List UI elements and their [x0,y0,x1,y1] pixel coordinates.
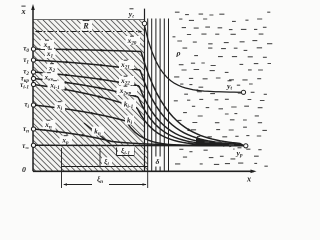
arrowhead on curve [56,130,60,133]
curve tau_2 steep part [139,86,244,146]
xi_n dimension line [64,184,92,186]
label delta [154,157,163,167]
R dimension line [36,31,141,33]
boundary layer vertical lines [147,19,149,172]
arrowhead on curve [65,74,69,77]
label y_p bottom right [235,149,247,158]
arrowhead on curve [66,48,70,51]
label x_i-1 [48,81,65,90]
arrowhead on curve [101,49,105,52]
label k_i-1 [122,100,137,109]
curve tau_4 steep part [137,108,244,146]
label x_21 [119,60,134,69]
label x_1 [45,49,56,58]
curve tau_0 gentle part [34,49,142,52]
label y_t [224,81,236,91]
label x_п [43,120,56,129]
label x_2кр [117,86,138,95]
hatched body region [33,20,148,172]
curve tau_6 gentle part [34,129,113,142]
label rho [175,48,183,58]
xi dimension lines [62,148,148,189]
equilibrium line x_p [34,144,245,147]
curve tau_1 gentle part [34,60,141,70]
label x_20 [126,36,141,45]
label x_22 [119,76,134,85]
node y_g circle [142,21,146,25]
label x_2 [47,64,58,73]
arrowhead on curve [61,107,65,110]
horizontal axis [33,170,254,172]
curve tau_5 steep part [126,121,244,146]
svg-text:ρ: ρ [175,48,180,57]
arrowhead on curve [99,87,103,90]
label x_i [55,102,66,111]
svg-text:0: 0 [22,165,26,174]
curve tau_3 gentle part [34,79,139,98]
node y_t circle [241,90,245,94]
svg-text:x: x [246,175,251,184]
xi_n right extension line [147,171,149,188]
curve tau_3 steep part [138,97,244,146]
curve tau_1 steep part [140,70,244,146]
svg-text:δ: δ [156,157,160,166]
node y_p circle [244,144,248,148]
surface line y_g [144,9,146,172]
curve tau_5 gentle part [34,105,127,121]
arrowhead on y_t curve [197,89,201,91]
label R [81,21,93,31]
stipple texture of medium [173,12,273,166]
arrowhead on curve [99,78,103,81]
k_p line [84,123,110,144]
arrowhead on curve [100,64,104,67]
curve tau_4 gentle part [34,85,138,109]
svg-text:x: x [20,7,25,16]
label xi_i-1 [118,146,134,155]
curve tau_2 gentle part [34,72,140,86]
arrowhead on curve [91,112,95,115]
curve tau_6 steep part [112,142,244,146]
label x_н [41,40,55,49]
arrowhead on curve [65,81,69,84]
dark wedge of converging curves [196,139,242,145]
arrowhead on curve [64,88,68,91]
label k_п [92,127,104,136]
axis node circles [31,47,35,51]
hatch top edge [33,19,145,21]
label x_р [60,136,73,145]
label k_i [125,116,134,125]
fan arrowheads near convergence [187,128,192,131]
curve tau_0 steep part [141,52,244,146]
label xi_i [102,157,112,166]
y_t curve [145,26,242,93]
label x_кр [43,73,58,82]
arrowhead on curve [66,61,70,64]
svg-text:R: R [82,22,89,31]
arrowhead on curve [98,95,102,98]
arrowhead on curve [81,134,85,137]
vertical axis [32,7,34,171]
